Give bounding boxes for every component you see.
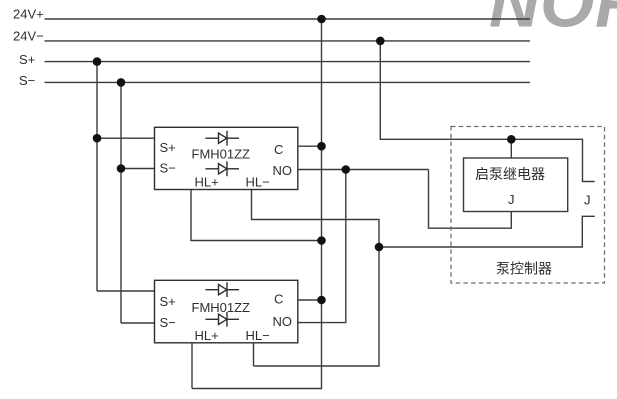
diode D1 (U1 upper) [206, 131, 240, 146]
dashed enclosure 泵控制器 [451, 127, 605, 284]
junction dot U1 S- lead [117, 164, 126, 173]
svg-text:C: C [274, 292, 283, 307]
junction dot relay coil top [507, 135, 516, 144]
contact J lower terminal and wire to HL- tie [379, 216, 595, 247]
wire U1 HL+ lead [191, 190, 322, 241]
svg-text:J: J [584, 193, 591, 208]
svg-text:S+: S+ [19, 52, 35, 67]
svg-text:NO: NO [273, 163, 293, 178]
svg-text:J: J [508, 192, 515, 207]
wire relay coil top drop (x=511.3) [510, 139, 512, 158]
wire relay coil bottom return to U1 NO [429, 170, 512, 229]
wire U1 S- pin lead [121, 168, 155, 170]
svg-text:24V+: 24V+ [13, 6, 44, 21]
svg-text:启泵继电器: 启泵继电器 [475, 166, 545, 182]
wire U1 S+ pin lead [97, 137, 155, 139]
wire NO tie line (x=345.8) U1 NO to U2 NO [298, 170, 346, 323]
wire S+ drop to modules (x=97) [96, 62, 98, 291]
module U2 box [155, 280, 298, 343]
svg-text:S−: S− [160, 160, 176, 175]
junction dot S+ / x97 [93, 57, 102, 66]
relay box 启泵继电器 [464, 158, 568, 212]
diode D4 (U2 lower) [206, 312, 240, 327]
svg-text:泵控制器: 泵控制器 [496, 261, 552, 277]
wire S+ bus [45, 61, 531, 63]
wire 24V- drop (x=380.3) to relay coil feed [380, 41, 594, 182]
wire U2 C pin lead [298, 299, 322, 301]
junction dot contact to HL- tie [375, 243, 384, 252]
svg-text:S+: S+ [160, 294, 176, 309]
svg-text:24V−: 24V− [13, 29, 44, 44]
wire 24V+ bus [45, 18, 531, 20]
svg-text:C: C [274, 142, 283, 157]
wire U1 NO pin lead to relay coil return [298, 169, 429, 171]
svg-text:S+: S+ [160, 140, 176, 155]
wire U2 S- pin lead [121, 322, 155, 324]
svg-text:S−: S− [19, 73, 35, 88]
svg-text:NOR: NOR [489, 0, 617, 42]
junction dot 24V+ / x321.5 [317, 15, 326, 24]
wire U2 HL- lead [253, 343, 255, 366]
wire U2 HL+ lead [191, 343, 193, 389]
svg-text:HL−: HL− [246, 328, 270, 343]
diode D3 (U2 upper) [206, 282, 240, 297]
wire 24V+ drop (x=321.5) to C pins and HL+ return [192, 19, 322, 389]
junction dot S- / x121 [117, 78, 126, 87]
svg-text:FMH01ZZ: FMH01ZZ [192, 300, 251, 315]
junction dot U1 S+ lead [93, 134, 102, 143]
wire S- bus [45, 81, 531, 83]
junction dot 24V- / x380.3 [376, 37, 385, 46]
svg-text:NO: NO [273, 314, 293, 329]
svg-text:HL−: HL− [246, 175, 270, 190]
wire U1 HL- lead [252, 190, 380, 367]
svg-text:FMH01ZZ: FMH01ZZ [192, 147, 251, 162]
junction dot U1 HL+ [317, 236, 326, 245]
svg-text:HL+: HL+ [195, 328, 219, 343]
wire U2 S+ pin lead [97, 290, 155, 292]
module U1 box [155, 127, 298, 189]
junction dot U1 C [317, 142, 326, 151]
wire S- drop to modules (x=121) [120, 82, 122, 323]
junction dot U1 NO [342, 165, 351, 174]
wire 24V- bus [45, 40, 531, 42]
svg-text:S−: S− [160, 315, 176, 330]
svg-text:HL+: HL+ [195, 175, 219, 190]
watermark NOR [489, 0, 617, 42]
wire U1 C pin lead [298, 145, 322, 147]
diode D2 (U1 lower) [206, 161, 240, 176]
junction dot U2 C [317, 296, 326, 305]
